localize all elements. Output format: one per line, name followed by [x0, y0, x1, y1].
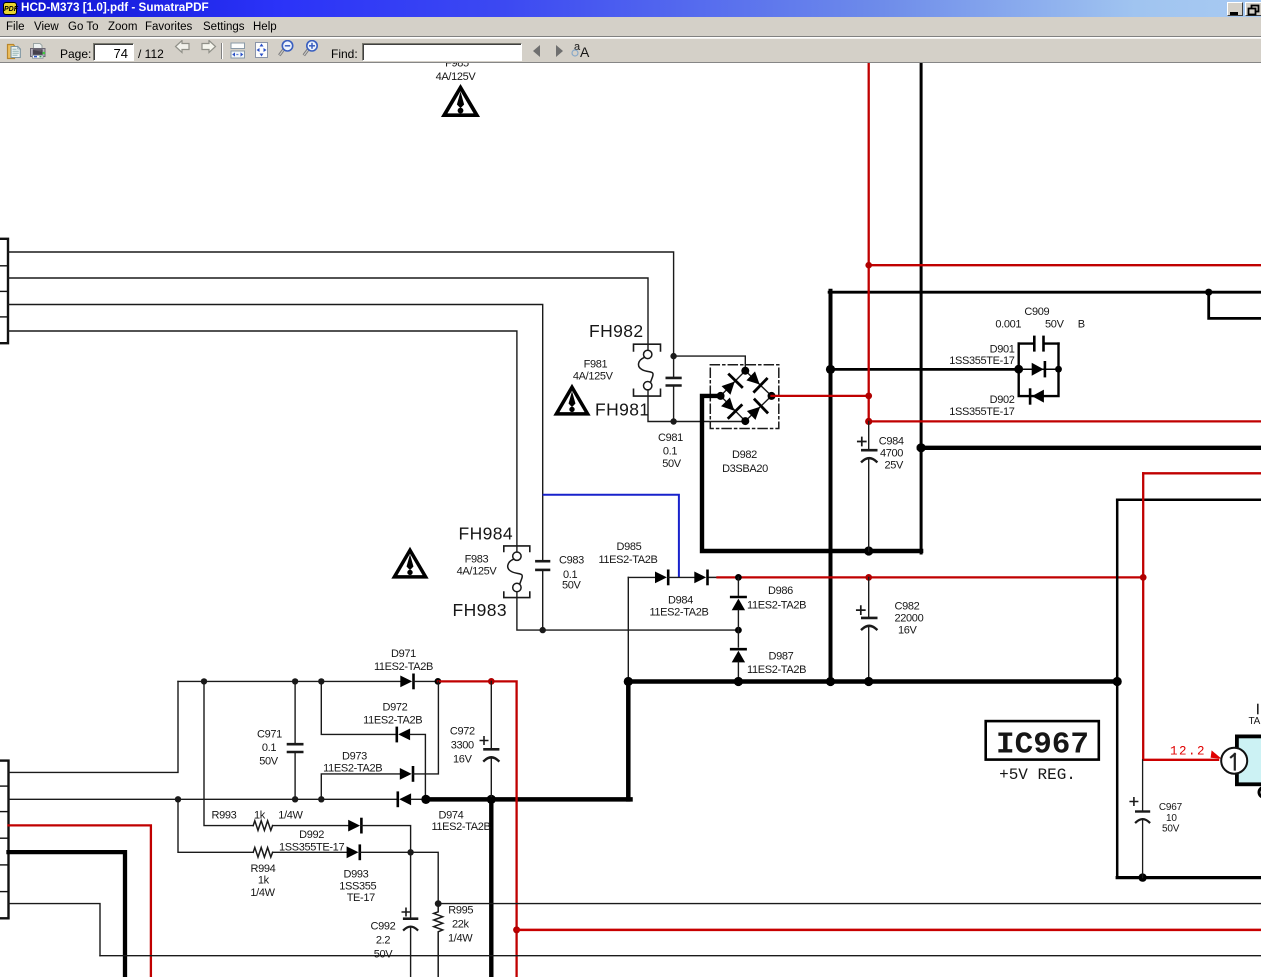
resistor R995 (vertical) [434, 904, 443, 977]
node red corner C984 [865, 418, 872, 425]
svg-text:22k: 22k [452, 919, 470, 931]
wire riser D985 anode to ground bus [627, 577, 629, 681]
bridge diode bottom-left [719, 396, 741, 418]
svg-text:D984: D984 [668, 594, 693, 606]
toolbar [0, 38, 1261, 63]
node C981 bottom [670, 418, 676, 424]
bridge diode bottom-right [745, 400, 767, 422]
wire frame bottom (y=877.6) [1117, 876, 1261, 879]
diode D987 [731, 630, 745, 681]
svg-text:4A/125V: 4A/125V [457, 566, 498, 578]
fuse holder FH984/FH983 brackets [504, 546, 530, 598]
svg-text:11ES2-TA2B: 11ES2-TA2B [747, 664, 806, 676]
svg-text:IC967: IC967 [996, 728, 1089, 763]
node row A x=295 (C971) [292, 678, 298, 684]
wire R994 feed from row D [178, 799, 253, 852]
svg-text:1SS355TE-17: 1SS355TE-17 [949, 406, 1014, 418]
zoom out icon [279, 49, 284, 55]
capacitor C983 [536, 561, 549, 630]
wire red +12 rail (y=577) from D984 [718, 576, 1144, 578]
node ground D985 riser [624, 677, 633, 686]
bridge diamond [721, 371, 772, 421]
wire D985 anode from ground riser [628, 576, 655, 578]
svg-text:1k: 1k [258, 875, 270, 887]
svg-text:D972: D972 [383, 701, 408, 713]
svg-text:22000: 22000 [895, 613, 924, 625]
node D901 pair right [1055, 366, 1062, 373]
fuse F981 [639, 350, 654, 390]
connector CN (top left) [0, 239, 8, 343]
capacitor C971 [288, 681, 302, 799]
node ground x=830 bus [826, 677, 835, 686]
wire thick ground bus (y=681.5) [628, 679, 1117, 684]
wire D971 cathode to node [414, 680, 438, 682]
wire bottom rail (y=955.7) [100, 955, 1261, 957]
svg-text:11ES2-TA2B: 11ES2-TA2B [374, 661, 433, 673]
wire AC line 2 to fuse F981 [8, 278, 648, 350]
svg-text:1SS355TE-17: 1SS355TE-17 [949, 355, 1014, 367]
wire red right rail (y=473.3) [1143, 472, 1261, 474]
capacitor C972 [480, 681, 498, 799]
svg-text:A: A [580, 44, 590, 60]
warning symbol (top, F985) [444, 88, 477, 116]
svg-text:C981: C981 [658, 432, 683, 444]
svg-text:FH984: FH984 [459, 524, 514, 544]
svg-text:C992: C992 [371, 921, 396, 933]
wire connector to D971 row (up at x=178) [9, 681, 179, 772]
wire D993 out to R995 corner [360, 852, 438, 903]
svg-text:D971: D971 [391, 648, 416, 660]
capacitor C982 [857, 577, 877, 681]
svg-text:50V: 50V [374, 949, 394, 961]
svg-text:+5V REG.: +5V REG. [999, 766, 1076, 784]
diode D973 [400, 767, 413, 780]
svg-text:4A/125V: 4A/125V [436, 71, 477, 83]
node C967 bottom on frame [1138, 873, 1146, 881]
wire D972 out down to ground node [410, 734, 425, 799]
wire R993 feed from row A [204, 681, 253, 825]
svg-text:F985: F985 [445, 63, 469, 70]
wire D972 branch [321, 681, 397, 734]
svg-text:10: 10 [1166, 813, 1177, 824]
svg-text:TE-17: TE-17 [347, 892, 375, 904]
svg-text:B: B [1078, 319, 1085, 331]
zoom in icon [304, 49, 309, 55]
wire thick C972 ground drop (x=491.3) [489, 799, 493, 977]
wire thick DC bus (y=447.8) [919, 446, 1261, 450]
diode D971 [400, 675, 413, 688]
wire D984 cathode stub [708, 576, 719, 578]
bridge node AC2 [741, 417, 749, 425]
node D901 feed on x=830 bus [826, 365, 835, 374]
node D986 top on red rail [735, 574, 742, 581]
svg-text:50V: 50V [1045, 319, 1065, 331]
bridge diode top-left [720, 375, 742, 397]
node row D x=295 (C971 bottom) [292, 796, 298, 802]
svg-text:1/4W: 1/4W [448, 933, 473, 945]
svg-text:D982: D982 [732, 449, 757, 461]
IC967 pin 2 circle (cut at edge) [1259, 787, 1261, 797]
wire x=830 bus to D901/D902 pair [831, 368, 1019, 371]
node thick bus at x=921 [917, 443, 926, 452]
svg-text:4A/125V: 4A/125V [573, 370, 614, 382]
wire red rail (y=421.4) [869, 420, 1261, 422]
print icon [31, 44, 46, 59]
svg-text:1k: 1k [254, 809, 266, 821]
label cut tick above TA [1257, 705, 1259, 714]
bridge node plus [768, 392, 776, 400]
wire thick ground bus (y=799.4) [426, 797, 631, 802]
svg-text:TA: TA [1249, 716, 1261, 727]
diode D992 [348, 819, 361, 832]
pin number 1 [1231, 754, 1235, 770]
connector CN (bottom left) [0, 761, 9, 919]
node red C972 top [488, 678, 495, 685]
wire D973 branch [321, 774, 400, 799]
resistor R993 [253, 821, 272, 831]
wire thick: bridge minus to ground loop [702, 396, 921, 551]
wire red to IC967 pin1 [1143, 759, 1218, 761]
svg-text:R995: R995 [448, 905, 473, 917]
diode D974 [398, 793, 411, 806]
diode D901 [1019, 362, 1059, 376]
svg-text:D986: D986 [768, 585, 793, 597]
svg-text:C983: C983 [559, 555, 584, 567]
next result triangle [556, 45, 563, 57]
svg-text:D973: D973 [342, 751, 367, 763]
diode pair bracket (D901/D902/C909) [1019, 344, 1059, 397]
svg-text:11ES2-TA2B: 11ES2-TA2B [363, 715, 422, 727]
IC967 body (cyan, cut at right) [1237, 736, 1261, 784]
bridge rectifier D982 box [710, 365, 779, 429]
red arrowhead at IC967 pin1 [1211, 750, 1222, 758]
title bar [0, 0, 1261, 17]
svg-text:D3SBA20: D3SBA20 [722, 463, 768, 475]
wire branch from y=292 bus down-right [1209, 292, 1261, 318]
wire black bus (y=292) horizontal [829, 291, 1261, 294]
svg-text:D901: D901 [990, 343, 1015, 355]
node ground D987 [734, 677, 743, 686]
svg-text:11ES2-TA2B: 11ES2-TA2B [323, 763, 382, 775]
node red bottom rail tap [513, 926, 520, 933]
diode D972 [397, 728, 410, 741]
svg-text:50V: 50V [259, 756, 279, 768]
node ground C982 [864, 677, 873, 686]
wire line 4 to fuse F983 [8, 331, 517, 552]
node C981 top [670, 353, 676, 359]
svg-text:C972: C972 [450, 725, 475, 737]
svg-text:1SS355: 1SS355 [339, 881, 376, 893]
capacitor C981 [667, 356, 681, 421]
diode D902 [1030, 390, 1044, 404]
back arrow [176, 41, 190, 53]
svg-text:D987: D987 [769, 651, 794, 663]
prev result triangle [533, 45, 540, 57]
warning symbol (FH981) [556, 387, 587, 414]
node red bridge out at x=868.7 [865, 393, 872, 400]
svg-text:F983: F983 [465, 554, 489, 566]
wire black vertical bus (x=921) [920, 63, 923, 553]
svg-text:11ES2-TA2B: 11ES2-TA2B [649, 606, 708, 618]
forward arrow [202, 41, 216, 53]
wire D974 anode to ground node [411, 798, 426, 800]
node ground bus left end [421, 795, 430, 804]
node row D x=178 [175, 796, 181, 802]
svg-text:R994: R994 [251, 863, 276, 875]
wire D971 row (y=681.4) [178, 680, 400, 682]
svg-text:16V: 16V [453, 754, 473, 766]
node R995 top [435, 900, 442, 907]
svg-text:D993: D993 [344, 869, 369, 881]
svg-text:1/4W: 1/4W [278, 809, 303, 821]
wire D992 out down to D993 node [361, 826, 410, 853]
wire frame left (x=1117.2) [1116, 500, 1119, 878]
separator [221, 43, 223, 59]
node D986/D987 mid tap [735, 627, 742, 634]
wire C981 top to bridge AC1 [674, 356, 746, 371]
svg-text:FH983: FH983 [453, 600, 508, 620]
svg-text:FH981: FH981 [595, 400, 650, 420]
svg-text:FH982: FH982 [589, 321, 644, 341]
svg-text:R993: R993 [212, 809, 237, 821]
node row D x=321 (D973 branch) [318, 796, 324, 802]
svg-text:11ES2-TA2B: 11ES2-TA2B [431, 821, 490, 833]
fit width icon [231, 43, 245, 49]
node ground at frame [1113, 677, 1122, 686]
wire R995 output row (y=903.6) [438, 903, 1261, 905]
node C982 top on red rail [865, 574, 872, 581]
wire R994 to D993 [273, 851, 347, 853]
node C983 bottom [540, 627, 546, 633]
wire R993 to D992 [273, 825, 349, 827]
fuse F983 [508, 552, 523, 592]
diode D993 [347, 846, 360, 859]
wire thick ground riser (x=628.3) [626, 682, 631, 800]
capacitor C909 [1019, 337, 1059, 350]
diode D985 [655, 571, 668, 584]
wire D985 to D984 [668, 576, 694, 578]
svg-text:D902: D902 [990, 394, 1015, 406]
svg-text:16V: 16V [898, 625, 918, 637]
wire red top rail (y=265.2) [869, 264, 1261, 266]
wire line 3 to C983 [8, 305, 543, 561]
svg-text:50V: 50V [1162, 824, 1180, 835]
bridge node AC1 [741, 367, 749, 375]
wire connector bottom line to y=955.7 rail [9, 904, 101, 956]
IC967 pin 1 circle [1221, 748, 1247, 774]
wire red right riser (x=1143.2) [1142, 473, 1144, 760]
svg-text:D992: D992 [299, 829, 324, 841]
svg-text:C984: C984 [879, 436, 904, 448]
svg-text:11ES2-TA2B: 11ES2-TA2B [747, 600, 806, 612]
capacitor C984 [858, 421, 877, 551]
svg-text:C971: C971 [257, 729, 282, 741]
wire D974 row (y=799.3) [9, 798, 398, 800]
node C984 bottom on ground loop [864, 546, 873, 555]
wire AC line 1 to C981/bridge [8, 252, 674, 356]
wire red bottom rail (y=929.9) [517, 929, 1261, 932]
capacitor C967 [1130, 760, 1149, 878]
svg-text:25V: 25V [885, 460, 905, 472]
svg-text:F981: F981 [584, 358, 608, 370]
warning symbol (FH983) [394, 550, 425, 577]
wire red bridge plus out [772, 395, 869, 397]
svg-text:50V: 50V [562, 580, 582, 592]
svg-text:D974: D974 [439, 810, 464, 822]
svg-text:1/4W: 1/4W [250, 887, 275, 899]
wire fuse F981 out to bridge AC2 [648, 390, 745, 422]
node ground bus C972 bottom [487, 795, 496, 804]
node black bus branch (x=1209) [1205, 289, 1212, 296]
diode D984 [694, 571, 707, 584]
wire blue jumper [544, 495, 679, 577]
node red riser y=577 [1140, 574, 1147, 581]
node D992/D993 join [407, 849, 413, 855]
bridge diode top-right [745, 370, 767, 392]
svg-text:C909: C909 [1024, 306, 1049, 318]
svg-text:4700: 4700 [880, 448, 903, 460]
svg-text:50V: 50V [662, 458, 682, 470]
wire connector thick (y=852.1) down x=125 [9, 852, 126, 977]
svg-text:C982: C982 [895, 601, 920, 613]
capacitor C992 [402, 852, 417, 977]
svg-text:0.1: 0.1 [262, 742, 276, 754]
node D971 cathode [435, 678, 442, 685]
svg-text:0.001: 0.001 [995, 319, 1021, 331]
wire frame top (y=499.8) [1117, 499, 1261, 502]
wire connector red (y=825.4) down x=150.9 [9, 825, 151, 977]
wire D973 cathode up to row A [413, 681, 438, 774]
svg-text:0.1: 0.1 [663, 446, 677, 458]
diode D986 [731, 577, 745, 630]
fit page icon [256, 43, 268, 58]
bridge node minus [717, 392, 725, 400]
resistor R994 [253, 848, 272, 858]
wire red from D971 node down right side (x=516.6) [438, 681, 517, 977]
svg-text:12.2: 12.2 [1170, 745, 1206, 759]
wire fuse F983 out (y=630) [517, 592, 739, 630]
svg-text:C967: C967 [1159, 802, 1183, 813]
node red rail tap [865, 262, 872, 269]
node row A x=321 (D972) [318, 678, 324, 684]
svg-text:3300: 3300 [451, 740, 474, 752]
wire red vertical feed (x=868.7) [868, 63, 870, 421]
menu bar [0, 17, 1261, 37]
IC967 label box [986, 721, 1099, 760]
wire black bus corner (x=830) vertical [829, 291, 833, 682]
svg-text:11ES2-TA2B: 11ES2-TA2B [598, 554, 657, 566]
node D901 pair left [1014, 365, 1023, 374]
svg-text:2.2: 2.2 [376, 935, 390, 947]
open icon [8, 45, 21, 59]
node row A x=204 [201, 678, 207, 684]
svg-text:D985: D985 [617, 541, 642, 553]
fuse holder FH982 brackets [634, 344, 661, 396]
